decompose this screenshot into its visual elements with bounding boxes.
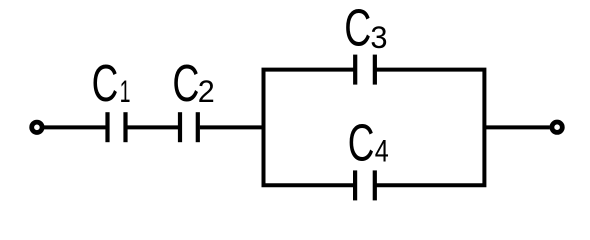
capacitor C2 xyxy=(180,112,198,142)
svg-text:2: 2 xyxy=(198,73,215,109)
wire xyxy=(200,125,265,129)
wire xyxy=(484,125,549,129)
wire xyxy=(42,125,106,129)
capacitor C3 xyxy=(355,55,375,85)
terminal right xyxy=(552,122,562,132)
svg-text:C: C xyxy=(172,54,199,113)
label C1 xyxy=(92,54,131,113)
svg-text:C: C xyxy=(348,113,375,172)
svg-text:C: C xyxy=(92,54,119,113)
wire right branch frame xyxy=(376,70,484,186)
svg-text:C: C xyxy=(344,0,371,57)
label C4 xyxy=(348,113,389,172)
wire left branch frame xyxy=(264,70,354,186)
label C3 xyxy=(344,0,387,57)
label C2 xyxy=(172,54,214,113)
capacitor C4 xyxy=(355,170,375,200)
terminal left xyxy=(32,122,42,132)
capacitor C1 xyxy=(108,112,126,142)
svg-text:1: 1 xyxy=(120,73,131,109)
svg-text:3: 3 xyxy=(370,20,387,55)
wire xyxy=(128,125,179,129)
svg-text:4: 4 xyxy=(375,134,389,169)
